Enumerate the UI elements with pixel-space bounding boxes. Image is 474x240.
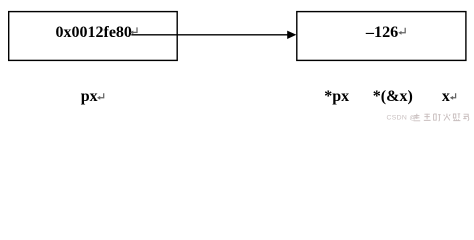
svg-text:*px: *px bbox=[324, 88, 349, 105]
svg-text:0x0012fe80: 0x0012fe80 bbox=[56, 24, 132, 41]
svg-text:*(&x): *(&x) bbox=[373, 88, 413, 105]
svg-text:px: px bbox=[81, 88, 98, 105]
svg-text:CSDN @: CSDN @ bbox=[387, 114, 417, 121]
svg-text:–126: –126 bbox=[365, 23, 398, 41]
svg-text:x: x bbox=[442, 88, 450, 105]
